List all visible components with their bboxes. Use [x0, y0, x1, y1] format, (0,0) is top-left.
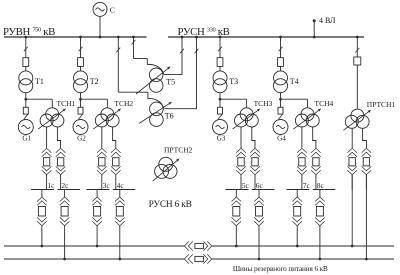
reserve feeder 8с upper contacts [315, 197, 325, 202]
reserve feeder 3с node [96, 245, 99, 248]
svg-text:2с: 2с [61, 181, 69, 190]
wire ТСН4 left secondary [301, 127, 303, 148]
svg-text:8с: 8с [317, 181, 325, 190]
wire Т4 to generator lead [280, 93, 282, 108]
reserve feeder ПРТСН1-right breaker [363, 158, 369, 166]
reserve feeder 8с lower contacts [315, 221, 325, 226]
wire tap to ТСН4 [281, 98, 308, 100]
wire ТСН2 right secondary [113, 127, 116, 148]
node 750-T5 [132, 36, 135, 39]
input feeder 4с wire to section [115, 175, 117, 190]
input feeder 4с upper contacts [111, 148, 121, 153]
wire ТСН2 left secondary [101, 127, 103, 148]
lower reserve bus 6 кВ [4, 258, 184, 260]
svg-text:РУВН 750 кВ: РУВН 750 кВ [3, 26, 55, 38]
reserve feeder 2с upper contacts [60, 197, 70, 202]
reserve feeder 4с upper contacts [115, 197, 125, 202]
svg-text:G1: G1 [22, 135, 31, 143]
input feeder 2с wire to section [60, 175, 62, 190]
wire bus to breaker Т3 [219, 37, 221, 58]
input feeder 6с wire to section [254, 175, 256, 190]
wire ПРТСН1 left secondary [351, 128, 353, 148]
svg-text:7с: 7с [303, 181, 311, 190]
wire breaker to Т1 [25, 66, 27, 71]
wire 750 drop T5 [133, 37, 135, 58]
tie breaker upper [195, 243, 204, 248]
input feeder 5с upper contacts [236, 148, 246, 153]
svg-text:ТСН4: ТСН4 [315, 99, 334, 108]
input feeder 6с breaker [252, 158, 258, 166]
input feeder 1с breaker [43, 158, 49, 166]
reserve feeder ПРТСН1-right lower contacts [362, 170, 372, 175]
breaker Q-G1 [23, 107, 28, 114]
reserve feeder 1с node [41, 245, 44, 248]
wire Т1 to generator lead [25, 93, 27, 108]
wire bus to breaker ПРТСН1 [356, 37, 358, 57]
node ПРТСН1-left [351, 245, 354, 248]
svg-text:ТСН3: ТСН3 [254, 99, 273, 108]
input feeder 1с lower contacts [42, 170, 52, 175]
reserve feeder 7с breaker [294, 207, 301, 217]
svg-text:Т4: Т4 [290, 77, 299, 86]
reserve feeder ПРТСН1-right wire to section [365, 175, 367, 190]
input feeder 7с wire to section [301, 175, 303, 190]
input feeder 7с upper contacts [297, 148, 307, 153]
svg-text:ПРТСН1: ПРТСН1 [367, 100, 396, 109]
wire ТСН3 left secondary [240, 127, 242, 148]
reserve feeder 4с breaker [116, 207, 123, 217]
reserve feeder 1с upper contacts [37, 197, 47, 202]
reserve feeder 1с breaker [38, 207, 45, 217]
svg-text:4 ВЛ: 4 ВЛ [319, 16, 336, 25]
ТСН3 regulation arrow [233, 111, 258, 129]
reserve feeder 6с wire from section [258, 190, 260, 198]
wire Т2 to generator lead [80, 93, 82, 108]
wire bus to breaker Т2 [80, 37, 82, 58]
input feeder 1с upper contacts [42, 148, 52, 153]
reserve feeder 3с wire from section [96, 190, 98, 198]
wire Т6 to 330 bus [164, 37, 196, 109]
reserve feeder 6с upper contacts [254, 197, 264, 202]
ПРТСН1 regulation arrow [343, 112, 368, 130]
input feeder 5с wire to section [240, 175, 242, 190]
svg-text:ТСН1: ТСН1 [57, 99, 76, 108]
source C (system) [93, 2, 107, 16]
reserve feeder 6с wire to reserve bus [258, 226, 260, 259]
autotransformer Т5 [149, 68, 163, 82]
node ПРТСН1-right [365, 258, 368, 261]
ТСН4 regulation arrow [294, 111, 319, 129]
ТСН2 windings [101, 108, 114, 121]
input feeder 2с upper contacts [56, 148, 66, 153]
breaker Q-ПРТСН1 [354, 57, 361, 65]
node bus-Т2 [79, 36, 82, 39]
reserve feeder 5с upper contacts [232, 197, 242, 202]
reserve feeder 1с wire from section [41, 190, 43, 198]
breaker Q-Т3 [217, 58, 223, 67]
wire Т3 to generator lead [219, 93, 221, 108]
bus section 5с [226, 189, 249, 191]
node bus-Т3 [219, 36, 222, 39]
wire ТСН1 right secondary [57, 127, 60, 148]
tie breaker lower: right contacts [207, 254, 212, 263]
reserve feeder ПРТСН1-right upper contacts [362, 148, 372, 153]
wire breaker to Т3 [219, 66, 221, 71]
upper reserve bus 6 кВ [4, 245, 184, 247]
reserve feeder 4с lower contacts [115, 221, 125, 226]
disconnector ПРТСН1 [355, 48, 359, 53]
bus РУВН 750 кВ [4, 36, 147, 38]
ТСН4 windings [301, 108, 314, 121]
wire Т5 to 330 bus [164, 37, 182, 75]
wire ПРТСН1-right to lower reserve bus [365, 175, 367, 259]
input feeder 4с lower contacts [111, 170, 121, 175]
reserve feeder 5с breaker [233, 207, 240, 217]
tie breaker lower: left contacts [184, 254, 189, 263]
disconnector Т5-330 [180, 49, 184, 54]
reserve feeder 5с node [235, 245, 238, 248]
svg-text:G3: G3 [217, 135, 226, 143]
reserve feeder 2с breaker [61, 207, 68, 217]
node Т1-tap [24, 98, 27, 101]
reserve feeder 8с wire from section [319, 190, 321, 198]
node Т6-330 bus [195, 36, 198, 39]
svg-text:РУСН 6 кВ: РУСН 6 кВ [149, 200, 192, 210]
bus section 6с [252, 189, 275, 191]
bus РУСН 330 кВ [168, 36, 364, 38]
generator G3 [213, 120, 228, 135]
reserve feeder 4с node [118, 258, 121, 261]
reserve feeder 8с node [319, 258, 322, 261]
input feeder 3с wire to section [101, 175, 103, 190]
svg-text:Шины резервного питания 6 кВ: Шины резервного питания 6 кВ [233, 265, 328, 273]
breaker Q-G3 [218, 107, 223, 114]
svg-text:Т5: Т5 [166, 77, 175, 86]
disconnector T5-750 [132, 40, 136, 45]
reserve feeder 3с lower contacts [92, 221, 102, 226]
wire breaker to Т2 [80, 66, 82, 71]
reserve feeder 3с wire to reserve bus [96, 226, 98, 246]
reserve feeder 5с wire to reserve bus [235, 226, 237, 246]
reserve feeder 1с lower contacts [37, 221, 47, 226]
ТСН1 regulation arrow [38, 111, 63, 129]
node Т2-tap [79, 98, 82, 101]
reserve feeder ПРТСН1-left breaker [349, 158, 355, 166]
reserve feeder 4с wire to reserve bus [119, 226, 121, 259]
wire tap to ТСН3 [220, 98, 247, 100]
reserve feeder 5с lower contacts [232, 221, 242, 226]
generator G4 [273, 120, 288, 135]
input feeder 4с breaker [113, 158, 119, 166]
reserve feeder 6с lower contacts [254, 221, 264, 226]
Т6 regulation arrow [139, 104, 169, 124]
svg-text:3с: 3с [103, 181, 111, 190]
bus section 4с [113, 189, 136, 191]
svg-text:Т2: Т2 [90, 77, 99, 86]
svg-text:ПРТСН2: ПРТСН2 [164, 146, 193, 155]
input feeder 3с upper contacts [97, 148, 107, 153]
node bus-Т4 [279, 36, 282, 39]
wire ТСН1 left secondary [46, 127, 48, 148]
node 750-T6 [117, 36, 120, 39]
disconnector Т6-330 [195, 49, 199, 54]
node bus-ПРТСН1 [356, 36, 359, 39]
wire C to 750 bus [99, 16, 101, 37]
disconnector Т1 [24, 47, 28, 52]
ТСН2 regulation arrow [93, 111, 118, 129]
reserve feeder 7с upper contacts [292, 197, 302, 202]
reserve feeder 3с breaker [94, 207, 101, 217]
bus section 2с [58, 189, 81, 191]
svg-text:6с: 6с [256, 181, 264, 190]
reserve feeder 6с node [258, 258, 261, 261]
autotransformer Т6 [150, 102, 164, 116]
bus section 8с [313, 189, 336, 191]
wire breaker to Т4 [280, 66, 282, 71]
bus section 7с [286, 189, 309, 191]
reserve feeder 7с wire from section [296, 190, 298, 198]
input feeder 3с lower contacts [97, 170, 107, 175]
svg-text:G4: G4 [277, 135, 286, 143]
reserve feeder 8с wire to reserve bus [319, 226, 321, 259]
wire 750 feed to Т6 [118, 92, 164, 108]
svg-text:4с: 4с [117, 181, 125, 190]
ТСН3 windings [240, 108, 253, 121]
reserve feeder ПРТСН1-left wire to section [351, 175, 353, 190]
Т5 regulation arrow [136, 69, 168, 94]
generator G2 [73, 120, 88, 135]
reserve feeder 7с wire to reserve bus [296, 226, 298, 246]
wire 4ВЛ [313, 21, 315, 37]
svg-text:Т3: Т3 [229, 77, 238, 86]
disconnector G2 [79, 115, 83, 120]
disconnector Т3 [218, 47, 222, 52]
wire bus to breaker Т1 [25, 37, 27, 58]
wire ТСН4 right secondary [313, 127, 316, 148]
reserve feeder 1с wire to reserve bus [41, 226, 43, 246]
node bus-Т1 [24, 36, 27, 39]
reserve feeder 8с breaker [316, 207, 323, 217]
tie breaker lower [195, 256, 204, 261]
input feeder 8с lower contacts [311, 170, 321, 175]
input feeder 1с wire to section [46, 175, 48, 190]
disconnector G1 [24, 115, 28, 120]
wire tap to ТСН1 [26, 98, 52, 100]
disconnector G3 [218, 115, 222, 120]
wire ТСН3 right secondary [252, 127, 255, 148]
wire tap to ТСН2 [81, 98, 108, 100]
tie breaker upper: left contacts [184, 241, 189, 250]
wire ПРТСН1 right secondary [363, 128, 367, 148]
input feeder 8с upper contacts [311, 148, 321, 153]
breaker Q-Т2 [78, 58, 84, 67]
ПРТСН1 windings [351, 109, 364, 122]
svg-text:ТСН2: ТСН2 [114, 99, 133, 108]
svg-text:G2: G2 [77, 135, 86, 143]
input feeder 7с breaker [299, 158, 305, 166]
input feeder 2с breaker [57, 158, 63, 166]
input feeder 8с breaker [313, 158, 319, 166]
svg-text:1с: 1с [47, 181, 55, 190]
transformer Т4 [274, 71, 288, 85]
ПРТСН2 windings [159, 157, 173, 171]
node C-bus [99, 36, 102, 39]
bus section 1с [31, 189, 54, 191]
input feeder 5с breaker [238, 158, 244, 166]
disconnector T6-750 [116, 48, 120, 53]
reserve feeder 7с node [296, 245, 299, 248]
reserve feeder 3с upper contacts [92, 197, 102, 202]
reserve feeder 7с lower contacts [292, 221, 302, 226]
svg-text:Т1: Т1 [35, 77, 44, 86]
disconnector Т4 [279, 47, 283, 52]
input feeder 3с breaker [99, 158, 105, 166]
breaker Q-G2 [78, 107, 83, 114]
breaker Q-Т4 [278, 58, 284, 67]
disconnector G4 [279, 115, 283, 120]
input feeder 2с lower contacts [56, 170, 66, 175]
wire ПРТСН1-left to reserve bus [351, 175, 353, 246]
svg-text:Т6: Т6 [165, 112, 174, 121]
reserve feeder 2с wire to reserve bus [64, 226, 66, 259]
node Т3-tap [219, 98, 222, 101]
input feeder 6с lower contacts [250, 170, 260, 175]
breaker Q-G4 [278, 107, 283, 114]
reserve feeder 2с wire from section [64, 190, 66, 198]
svg-text:РУСН 330 кВ: РУСН 330 кВ [178, 26, 230, 38]
transformer Т2 [74, 71, 88, 85]
node Т4-tap [279, 98, 282, 101]
generator G1 [18, 120, 33, 135]
reserve feeder 2с node [63, 258, 66, 261]
input feeder 5с lower contacts [236, 170, 246, 175]
input feeder 8с wire to section [315, 175, 317, 190]
reserve feeder 5с wire from section [235, 190, 237, 198]
bus section 3с [86, 189, 109, 191]
disconnector Т2 [79, 47, 83, 52]
ПРТСН2 regulation arrow [153, 161, 177, 182]
input feeder 7с lower contacts [297, 170, 307, 175]
svg-text:5с: 5с [242, 181, 250, 190]
wire breaker to ПРТСН1 [356, 65, 358, 109]
breaker Q-Т1 [23, 58, 29, 67]
transformer Т1 [19, 71, 33, 85]
node Т5-330 bus [181, 36, 184, 39]
wire 750 drop T6 [117, 37, 119, 92]
wire bus to breaker Т4 [280, 37, 282, 58]
reserve feeder ПРТСН1-left upper contacts [347, 148, 357, 153]
svg-text:С: С [110, 6, 115, 15]
reserve feeder 6с breaker [256, 207, 263, 217]
reserve feeder 2с lower contacts [60, 221, 70, 226]
tie breaker upper: right contacts [207, 241, 212, 250]
reserve feeder ПРТСН1-left lower contacts [347, 170, 357, 175]
reserve feeder 4с wire from section [119, 190, 121, 198]
input feeder 6с upper contacts [250, 148, 260, 153]
wire 750 feed to Т5 [134, 59, 164, 75]
ТСН1 windings [46, 108, 59, 121]
transformer Т3 [213, 71, 227, 85]
